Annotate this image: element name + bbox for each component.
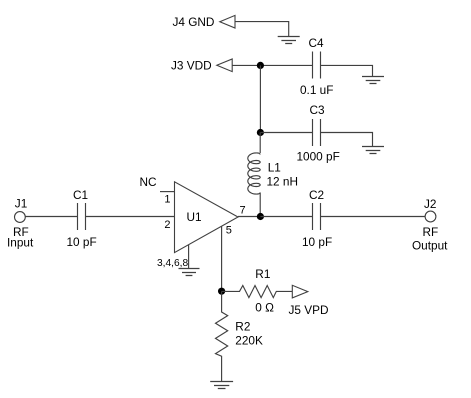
wire J1 to C1	[25, 216, 77, 218]
svg-text:RF: RF	[423, 225, 439, 239]
ground (R2)	[210, 382, 233, 389]
svg-text:2: 2	[164, 219, 170, 231]
svg-text:C1: C1	[73, 188, 88, 202]
svg-text:R2: R2	[235, 320, 250, 334]
svg-text:Output: Output	[412, 239, 448, 253]
inductor L1	[248, 153, 260, 194]
capacitor C4	[313, 52, 321, 79]
node VDD junction	[257, 62, 264, 69]
connector J4 arrow	[220, 15, 235, 28]
op-amp U1	[175, 182, 239, 253]
connector J5 arrow	[292, 285, 308, 298]
svg-text:10 pF: 10 pF	[67, 235, 97, 249]
ground (C4)	[362, 77, 384, 84]
connector J3 arrow	[217, 59, 232, 72]
svg-text:5: 5	[226, 224, 232, 236]
wire rail to L1	[259, 133, 261, 154]
svg-text:J5 VPD: J5 VPD	[289, 303, 329, 317]
wire C3 row	[260, 132, 312, 134]
svg-text:C4: C4	[309, 36, 325, 50]
wire C4 to ground	[321, 65, 373, 76]
svg-text:Input: Input	[7, 235, 34, 249]
svg-text:J1: J1	[15, 196, 27, 210]
svg-text:1000 pF: 1000 pF	[297, 149, 340, 163]
capacitor C2	[313, 203, 321, 230]
connector J1	[15, 212, 26, 223]
svg-text:3,4,6,8: 3,4,6,8	[157, 258, 188, 269]
resistor R2	[216, 291, 228, 381]
ground (J4)	[278, 37, 300, 44]
svg-text:U1: U1	[187, 210, 202, 224]
wire L1 to node	[259, 193, 261, 217]
wire pins 3,4,6,8 down	[188, 245, 190, 269]
capacitor C1	[78, 203, 86, 230]
wire J4 to ground	[235, 22, 289, 37]
svg-text:7: 7	[240, 204, 246, 216]
svg-text:12 nH: 12 nH	[267, 174, 298, 188]
wire VDD rail vertical	[259, 65, 261, 132]
wire pin5 down	[221, 226, 223, 291]
node C3 junction	[257, 129, 264, 136]
wire C1 to U1 pin2	[86, 216, 175, 218]
ground (C3)	[362, 147, 384, 154]
svg-text:220K: 220K	[235, 333, 263, 347]
resistor R1	[222, 286, 293, 298]
capacitor C3	[313, 119, 321, 146]
svg-text:NC: NC	[140, 175, 158, 189]
svg-text:0 Ω: 0 Ω	[255, 300, 274, 314]
wire node to C2	[260, 216, 312, 218]
wire NC stub pin1	[160, 191, 175, 193]
svg-text:J3 VDD: J3 VDD	[171, 58, 212, 72]
wire pin7 to node	[238, 216, 260, 218]
connector J2	[425, 211, 436, 222]
wire J3 VDD rail	[232, 64, 312, 66]
ground (U1 pins)	[179, 269, 200, 276]
svg-text:C3: C3	[310, 103, 326, 117]
svg-text:1: 1	[164, 194, 170, 206]
svg-text:J2: J2	[424, 197, 436, 211]
wire C2 to J2	[321, 216, 426, 218]
node output junction	[257, 213, 264, 220]
wire C3 to ground	[321, 133, 373, 147]
svg-text:0.1 uF: 0.1 uF	[300, 83, 333, 97]
svg-text:R1: R1	[255, 267, 270, 281]
svg-text:C2: C2	[309, 188, 324, 202]
svg-text:J4 GND: J4 GND	[173, 15, 215, 29]
node R1 junction	[218, 288, 225, 295]
svg-text:L1: L1	[268, 160, 281, 174]
svg-text:10 pF: 10 pF	[302, 235, 332, 249]
